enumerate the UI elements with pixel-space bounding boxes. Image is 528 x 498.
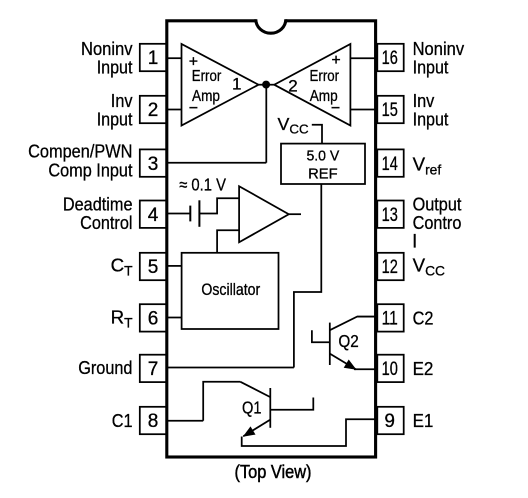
wire Q1 emitter to pin9 bbox=[242, 419, 377, 446]
wire Q2 base hook bbox=[312, 330, 330, 342]
notch at top of package bbox=[257, 17, 285, 23]
svg-text:RT: RT bbox=[111, 306, 134, 330]
pin 4 box bbox=[140, 201, 167, 228]
pin 9 box bbox=[377, 407, 403, 434]
node junction dot bbox=[262, 81, 270, 89]
svg-text:C1: C1 bbox=[112, 410, 133, 431]
transistor Q2 base bar bbox=[329, 323, 331, 365]
wire oscillator to deadtime comparator bbox=[217, 230, 239, 253]
wire pin8 up to Q1 collector bbox=[203, 382, 240, 421]
svg-text:Comp Input: Comp Input bbox=[48, 159, 133, 180]
svg-text:14: 14 bbox=[382, 154, 399, 175]
transistor Q1 emitter bbox=[243, 420, 270, 437]
pin 11 box bbox=[377, 304, 403, 331]
svg-text:9: 9 bbox=[384, 411, 395, 432]
pin 3 box bbox=[140, 149, 167, 176]
op-amp deadtime comparator bbox=[239, 186, 289, 242]
svg-text:11: 11 bbox=[382, 309, 398, 330]
svg-text:Q1: Q1 bbox=[242, 398, 262, 418]
pin 14 box bbox=[377, 149, 403, 176]
svg-text:E2: E2 bbox=[413, 358, 434, 379]
transistor Q1 collector bbox=[240, 382, 270, 397]
svg-text:Input: Input bbox=[97, 108, 133, 129]
wire pin2 to error amp 1 inv input bbox=[167, 109, 182, 111]
wire Q2 emitter to pin10 bbox=[354, 368, 377, 370]
svg-text:l: l bbox=[413, 231, 417, 252]
svg-text:VCC: VCC bbox=[413, 255, 445, 279]
svg-text:1: 1 bbox=[232, 75, 241, 94]
svg-text:2: 2 bbox=[288, 77, 297, 96]
wire pin4 to deadtime battery bbox=[167, 213, 191, 215]
svg-text:1: 1 bbox=[148, 48, 159, 69]
pin 13 box bbox=[377, 201, 403, 228]
pin 1 box bbox=[140, 44, 167, 71]
svg-text:Input: Input bbox=[413, 108, 449, 129]
wire battery to deadtime comparator bbox=[199, 198, 239, 213]
svg-text:15: 15 bbox=[382, 100, 398, 121]
svg-text:REF: REF bbox=[308, 166, 338, 183]
wire comparator output stub bbox=[289, 213, 301, 215]
svg-text:Vref: Vref bbox=[413, 154, 442, 178]
svg-text:VCC: VCC bbox=[278, 114, 309, 137]
svg-text:7: 7 bbox=[148, 359, 159, 380]
svg-text:Input: Input bbox=[97, 56, 133, 77]
svg-text:+: + bbox=[331, 52, 340, 69]
svg-text:4: 4 bbox=[148, 205, 159, 226]
svg-text:≈ 0.1 V: ≈ 0.1 V bbox=[179, 175, 226, 195]
op-amp error amp 2 bbox=[274, 44, 350, 126]
svg-text:6: 6 bbox=[148, 309, 159, 330]
pin 12 box bbox=[377, 253, 403, 280]
svg-text:5.0 V: 5.0 V bbox=[306, 147, 339, 164]
svg-text:Error: Error bbox=[310, 68, 340, 85]
op-amp error amp 1 bbox=[182, 44, 259, 126]
svg-text:5: 5 bbox=[148, 257, 159, 278]
wire pin3 compensation node bbox=[167, 162, 266, 164]
pin 15 box bbox=[377, 96, 403, 123]
wire pin16 to error amp 2 noninv input bbox=[350, 57, 377, 59]
pin 16 box bbox=[377, 44, 403, 71]
wire Q1 base hook bbox=[270, 398, 313, 410]
wire pin11 bbox=[357, 316, 377, 318]
svg-text:Q2: Q2 bbox=[338, 331, 358, 351]
battery 0.1V short plate bbox=[189, 206, 191, 222]
pin 2 box bbox=[140, 96, 167, 123]
wire between amp outputs bbox=[259, 84, 275, 86]
pin 10 box bbox=[377, 355, 403, 382]
wire pin6 to oscillator bbox=[167, 317, 182, 319]
IC package body U1 bbox=[167, 21, 376, 457]
wire pin15 to error amp 2 inv input bbox=[350, 109, 377, 111]
svg-text:(Top View): (Top View) bbox=[235, 461, 312, 482]
svg-text:2: 2 bbox=[148, 100, 159, 121]
svg-text:Input: Input bbox=[413, 56, 449, 77]
oscillator block bbox=[182, 253, 279, 329]
5.0 V REF block bbox=[281, 144, 365, 184]
svg-text:3: 3 bbox=[148, 154, 159, 175]
svg-text:8: 8 bbox=[148, 411, 159, 432]
battery 0.1V long plate bbox=[198, 200, 200, 227]
svg-text:−: − bbox=[331, 100, 340, 117]
transistor Q2 emitter bbox=[330, 354, 356, 370]
svg-text:Ground: Ground bbox=[78, 357, 132, 378]
pin 5 box bbox=[140, 253, 167, 280]
svg-text:C2: C2 bbox=[413, 308, 434, 329]
svg-text:Error: Error bbox=[192, 68, 222, 85]
svg-text:−: − bbox=[189, 100, 198, 117]
wire pin7 ground bbox=[167, 367, 294, 369]
svg-text:10: 10 bbox=[382, 359, 398, 380]
transistor Q1 base bar bbox=[269, 388, 271, 428]
svg-text:E1: E1 bbox=[413, 410, 434, 431]
wire pin5 to oscillator bbox=[167, 265, 182, 267]
svg-text:13: 13 bbox=[382, 205, 398, 226]
svg-text:CT: CT bbox=[111, 255, 134, 279]
wire pin1 to error amp 1 noninv input bbox=[167, 57, 182, 59]
wire junction down to pin3 node bbox=[265, 85, 267, 163]
pin 6 box bbox=[140, 304, 167, 331]
wire Vcc hook to 5.0V REF bbox=[312, 125, 322, 144]
transistor Q2 collector bbox=[330, 317, 377, 331]
Q1 emitter arrowhead bbox=[243, 426, 256, 436]
Q2 emitter arrowhead bbox=[344, 360, 357, 370]
wire pin8 to Q1 collector bbox=[167, 420, 203, 422]
svg-text:12: 12 bbox=[382, 257, 398, 278]
svg-text:Contro: Contro bbox=[413, 212, 462, 233]
pin 8 box bbox=[140, 407, 167, 434]
svg-text:Oscillator: Oscillator bbox=[201, 280, 260, 299]
wire REF output down bbox=[294, 184, 321, 368]
svg-text:Control: Control bbox=[80, 212, 132, 233]
pin 7 box bbox=[140, 355, 167, 382]
svg-text:16: 16 bbox=[382, 48, 398, 69]
